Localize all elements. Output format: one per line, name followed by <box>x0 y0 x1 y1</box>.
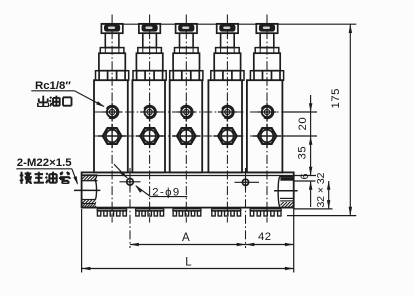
extension line from hex centerline to 20/35 dim <box>282 135 317 137</box>
dim 20 line <box>310 112 312 136</box>
svg-text:Rc1/8″: Rc1/8″ <box>35 80 71 92</box>
horizontal centerline through outlet ports <box>94 111 282 113</box>
valve unit 4 upper collar <box>216 48 240 54</box>
label text 油 (oil) <box>49 95 62 108</box>
valve unit 5 upper collar <box>255 48 279 54</box>
mounting hole phi9 right <box>242 179 248 185</box>
dim 6 lower outside arrow <box>310 181 312 207</box>
valve unit 1 adjusting stem <box>105 33 119 47</box>
valve unit 1 serrated flange <box>96 71 129 81</box>
valve unit 3 adjusting stem <box>180 33 194 47</box>
right fitting hatched band <box>275 202 300 207</box>
valve unit 3 body <box>170 80 203 172</box>
valve unit 4 hex plug <box>213 135 241 137</box>
valve unit 1 cap plug (dark insert) <box>105 25 120 31</box>
svg-text:2-M22×1.5: 2-M22×1.5 <box>17 157 72 169</box>
valve unit 2 outlet port Rc1/8 (front view) <box>140 111 159 113</box>
extension line from port centerline to 20 dim <box>282 111 317 113</box>
valve unit 4 serrated flange <box>211 71 244 81</box>
mounting pad group under unit 3 <box>173 208 201 210</box>
right inlet fitting M22x1.5 (sectioned) <box>278 176 280 207</box>
label text 出 (outlet) <box>37 95 50 108</box>
valve unit 4 top cap <box>217 24 238 33</box>
svg-text:2-ϕ9: 2-ϕ9 <box>152 186 180 198</box>
dim 35 line with arrows <box>310 136 312 176</box>
svg-text:6: 6 <box>299 173 311 179</box>
valve unit 4 adjusting stem <box>221 33 235 47</box>
left fitting lower hatched bands <box>82 199 96 201</box>
svg-text:35: 35 <box>297 146 309 160</box>
valve unit 3 outlet port Rc1/8 (front view) <box>177 111 196 113</box>
valve unit 3 centerline <box>185 15 187 223</box>
valve unit 2 adjusting stem <box>143 33 157 47</box>
valve unit 4 body <box>208 80 242 172</box>
valve unit 3 spring housing block <box>173 53 199 70</box>
label 2-M22x1.5 leader <box>16 168 72 170</box>
valve unit 4 outlet port Rc1/8 (front view) <box>218 111 237 113</box>
dim 175 line <box>349 24 351 215</box>
valve unit 5 spring housing block <box>254 53 280 70</box>
label text 口 (port) <box>61 95 74 108</box>
svg-text:42: 42 <box>258 231 272 243</box>
valve unit 3 upper collar <box>175 48 199 54</box>
dim 32x32 line <box>328 181 330 209</box>
dim 32x32 extension lines <box>294 208 333 210</box>
valve unit 1 centerline <box>111 15 113 223</box>
valve unit 1 spring housing block <box>99 53 125 70</box>
manifold base block <box>82 172 294 207</box>
extension line, top of caps to 175 dim <box>101 23 356 25</box>
valve unit 1 body <box>94 80 128 172</box>
horizontal centerline through hex plugs <box>94 135 282 137</box>
valve unit 5 outlet port Rc1/8 (front view) <box>258 111 277 113</box>
svg-text:32 × 32: 32 × 32 <box>316 172 327 207</box>
dim A line <box>130 244 246 246</box>
svg-text:A: A <box>182 232 190 244</box>
valve unit 3 hex plug <box>172 135 200 137</box>
valve unit 2 centerline <box>149 15 151 223</box>
base block step line <box>82 175 316 177</box>
valve unit 1 upper collar <box>100 48 124 54</box>
label text 主 (main) <box>32 171 46 185</box>
valve unit 3 top cap <box>176 24 197 33</box>
mounting hole phi9 left <box>127 179 134 186</box>
right fitting centerline <box>274 190 298 192</box>
svg-text:L: L <box>185 257 192 269</box>
valve unit 3 cap plug (dark insert) <box>179 25 194 31</box>
valve unit 1 top cap <box>101 24 122 33</box>
valve unit 5 hex plug <box>253 135 281 137</box>
valve unit 2 spring housing block <box>136 53 162 70</box>
valve unit 2 serrated flange <box>133 71 166 81</box>
left inlet fitting M22x1.5 (sectioned) <box>82 174 98 176</box>
mounting pad group under unit 1 <box>97 208 126 210</box>
right fitting thread lines <box>280 197 294 199</box>
valve unit 4 cap plug (dark insert) <box>220 25 235 31</box>
svg-text:175: 175 <box>330 88 342 108</box>
left fitting top hatched band <box>78 176 102 181</box>
valve unit 1 hex plug <box>98 135 126 137</box>
leader line for 2-phi9 <box>114 164 127 178</box>
label text 接 (connect) <box>19 171 33 185</box>
dim L line <box>82 268 294 270</box>
left fitting outer thread edge (curved) <box>95 181 96 200</box>
dim 20 upper outside arrow <box>310 95 312 112</box>
mounting pad group under unit 4 <box>212 208 241 210</box>
label text 油 (oil) <box>45 171 59 185</box>
valve unit 2 cap plug (dark insert) <box>142 25 157 31</box>
valve unit 5 centerline <box>266 15 268 223</box>
valve unit 4 centerline <box>226 15 228 223</box>
right fitting top black band <box>280 177 293 181</box>
valve unit 5 adjusting stem <box>260 33 274 47</box>
label text 管 (pipe) <box>58 171 72 185</box>
left fitting centerline <box>74 189 100 191</box>
valve unit 5 cap plug (dark insert) <box>260 25 275 31</box>
dim 175 bottom extension line <box>287 215 356 217</box>
dim 42 line <box>246 244 294 246</box>
mounting pad group under unit 2 <box>136 208 164 210</box>
mounting pad group under unit 5 <box>250 208 281 210</box>
dim 6 extension line <box>295 180 316 182</box>
valve unit 5 body <box>247 80 283 172</box>
valve unit 3 serrated flange <box>170 71 203 81</box>
valve unit 2 body <box>132 80 165 172</box>
valve unit 1 outlet port Rc1/8 (front view) <box>103 111 122 113</box>
dim L extension lines <box>81 209 83 273</box>
valve unit 5 top cap <box>256 24 277 33</box>
valve unit 2 top cap <box>139 24 160 33</box>
valve unit 2 upper collar <box>138 48 162 54</box>
valve unit 2 hex plug <box>136 135 164 137</box>
valve unit 5 serrated flange <box>250 71 283 81</box>
valve unit 4 spring housing block <box>214 53 240 70</box>
label Rc1/8 outlet leader <box>31 90 74 92</box>
svg-text:20: 20 <box>297 117 309 131</box>
